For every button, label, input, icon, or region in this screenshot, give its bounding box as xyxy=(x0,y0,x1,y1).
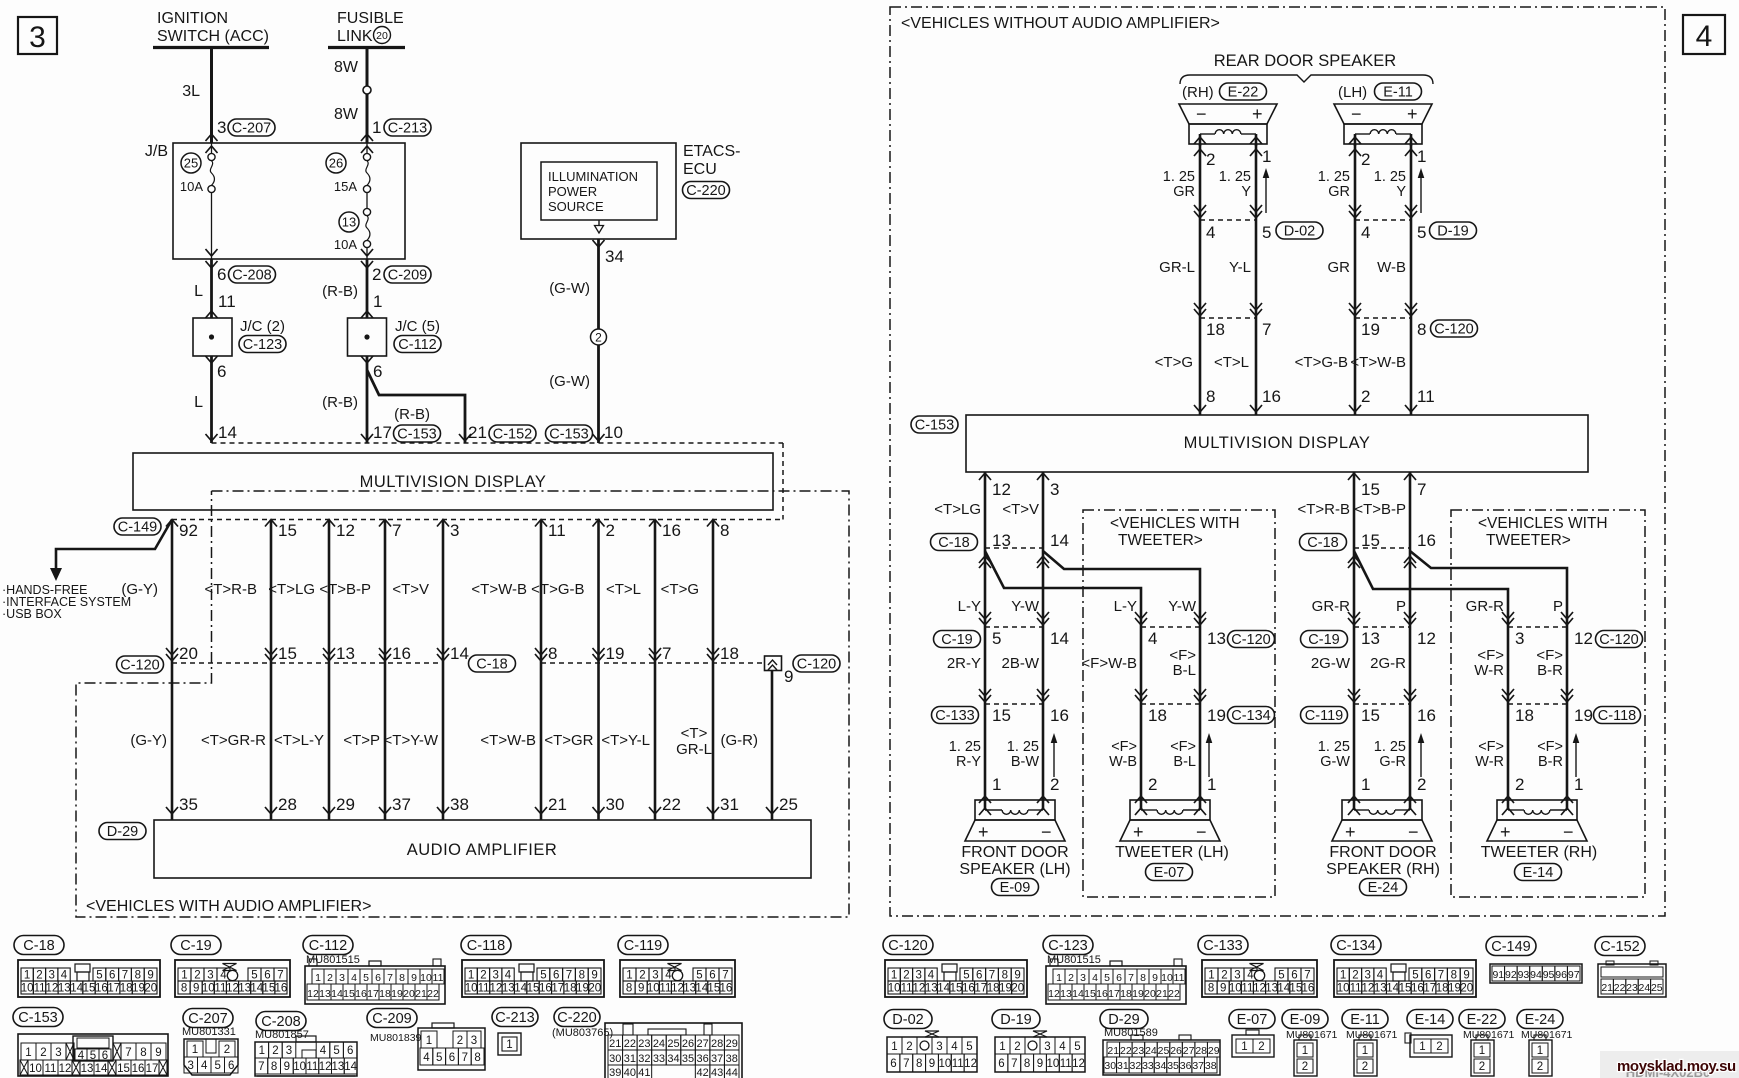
svg-text:+: + xyxy=(1500,822,1511,842)
connector pinout C-213 xyxy=(492,1008,538,1027)
svg-text:23: 23 xyxy=(1133,1045,1145,1057)
wire multivision pin 8 to amplifier pin 31 xyxy=(712,520,715,821)
svg-text:L: L xyxy=(194,394,203,411)
svg-text:17: 17 xyxy=(146,1063,159,1075)
rear door speaker RH symbol xyxy=(1179,104,1277,124)
svg-text:3: 3 xyxy=(1050,480,1059,499)
connector pinout C-18 xyxy=(14,936,64,955)
svg-text:E-24: E-24 xyxy=(1368,880,1399,896)
svg-text:2: 2 xyxy=(1479,1061,1485,1073)
svg-text:Y-W: Y-W xyxy=(1168,598,1197,615)
fuse 13 10A xyxy=(339,212,359,232)
wires from multivision to front speaker xyxy=(984,472,987,800)
svg-text:4: 4 xyxy=(1206,223,1215,242)
svg-text:L-Y: L-Y xyxy=(1114,598,1137,615)
wire 1.25GR rear LH pin2 xyxy=(1354,144,1357,415)
svg-text:29: 29 xyxy=(726,1038,738,1050)
svg-text:D-29: D-29 xyxy=(1108,1012,1139,1028)
connector tweeter second row xyxy=(1141,703,1200,705)
svg-text:(RH): (RH) xyxy=(1182,84,1214,101)
svg-text:27: 27 xyxy=(696,1038,708,1050)
svg-text:3: 3 xyxy=(1364,970,1370,982)
svg-text:15: 15 xyxy=(278,521,297,540)
svg-text:ECU: ECU xyxy=(683,161,717,178)
svg-text:8: 8 xyxy=(1417,320,1426,339)
svg-text:E-14: E-14 xyxy=(1523,865,1554,881)
svg-text:18: 18 xyxy=(1206,320,1225,339)
wire G-W illumination to multivision pin 10 xyxy=(597,239,600,443)
svg-text:8: 8 xyxy=(399,972,405,984)
connector pinout C-123 xyxy=(1043,936,1093,955)
svg-text:92: 92 xyxy=(1505,969,1517,981)
svg-text:13: 13 xyxy=(1374,983,1387,995)
svg-text:C-133: C-133 xyxy=(1203,938,1243,954)
svg-text:8: 8 xyxy=(916,1058,922,1070)
svg-text:(R-B): (R-B) xyxy=(322,394,358,411)
svg-text:30: 30 xyxy=(609,1053,621,1065)
svg-text:Y-L: Y-L xyxy=(1229,259,1251,276)
svg-text:(G-Y): (G-Y) xyxy=(130,732,167,749)
svg-text:3L: 3L xyxy=(182,83,200,100)
svg-text:15: 15 xyxy=(1361,706,1380,725)
svg-text:5: 5 xyxy=(1278,970,1284,982)
svg-text:B-R: B-R xyxy=(1537,662,1563,679)
svg-text:(G-W): (G-W) xyxy=(549,373,590,390)
svg-text:18: 18 xyxy=(987,983,1000,995)
svg-text:+: + xyxy=(978,822,989,842)
svg-text:20: 20 xyxy=(403,988,415,1000)
svg-text:5: 5 xyxy=(992,629,1001,648)
svg-text:8W: 8W xyxy=(334,106,359,123)
svg-text:MU801671: MU801671 xyxy=(1463,1029,1515,1041)
svg-text:C-220: C-220 xyxy=(557,1010,597,1026)
connector C-120 label left xyxy=(117,656,164,673)
svg-text:7: 7 xyxy=(125,1047,131,1059)
svg-text:8: 8 xyxy=(720,521,729,540)
svg-text:7: 7 xyxy=(462,1052,468,1064)
svg-text:28: 28 xyxy=(278,795,297,814)
svg-text:15: 15 xyxy=(83,983,96,995)
connector pinout C-133 xyxy=(1198,936,1248,955)
svg-text:Y: Y xyxy=(1241,184,1251,200)
svg-text:GR-R: GR-R xyxy=(1466,598,1504,615)
svg-text:C-18: C-18 xyxy=(476,657,507,673)
connector C-19 row xyxy=(1301,631,1348,648)
svg-text:POWER: POWER xyxy=(548,184,597,199)
svg-text:C-120: C-120 xyxy=(1434,322,1474,338)
svg-text:1: 1 xyxy=(426,1035,432,1047)
svg-text:<F>: <F> xyxy=(1170,739,1196,755)
svg-text:14: 14 xyxy=(1072,988,1084,1000)
svg-text:1: 1 xyxy=(259,1045,265,1057)
svg-text:5: 5 xyxy=(215,1060,221,1072)
svg-text:7: 7 xyxy=(1011,1058,1017,1070)
svg-text:8: 8 xyxy=(626,983,632,995)
vehicles with tweeter box LH xyxy=(1083,510,1275,897)
branch wire to tweeter left xyxy=(1354,551,1508,800)
connector pinout C-220 xyxy=(554,1008,600,1027)
svg-text:3: 3 xyxy=(492,970,498,982)
svg-text:4: 4 xyxy=(320,1045,327,1057)
svg-text:6: 6 xyxy=(890,1058,896,1070)
connector pinout E-24 xyxy=(1517,1010,1563,1029)
svg-text:22: 22 xyxy=(1614,982,1626,994)
svg-text:20: 20 xyxy=(588,983,601,995)
svg-text:8W: 8W xyxy=(334,59,359,76)
svg-text:15: 15 xyxy=(1399,983,1412,995)
svg-text:2: 2 xyxy=(639,970,645,982)
svg-text:TWEETER (LH): TWEETER (LH) xyxy=(1115,844,1229,861)
svg-text:21: 21 xyxy=(415,988,427,1000)
ignition switch feed bar xyxy=(153,46,269,49)
svg-text:15: 15 xyxy=(527,983,540,995)
svg-text:9: 9 xyxy=(284,1061,290,1073)
wire C-120 pin 9 to amplifier pin 25 G-R xyxy=(771,670,774,820)
svg-text:12: 12 xyxy=(1362,983,1375,995)
svg-text:11: 11 xyxy=(34,983,46,995)
svg-text:21: 21 xyxy=(1601,982,1613,994)
svg-text:16: 16 xyxy=(275,983,288,995)
svg-text:MU801331: MU801331 xyxy=(182,1026,236,1038)
svg-text:GR: GR xyxy=(1173,184,1195,200)
svg-text:29: 29 xyxy=(336,795,355,814)
svg-text:17: 17 xyxy=(367,988,379,1000)
svg-text:10: 10 xyxy=(21,983,34,995)
svg-text:TWEETER (RH): TWEETER (RH) xyxy=(1481,844,1597,861)
svg-text:<T>P: <T>P xyxy=(343,732,380,749)
multivision display box right C-153 xyxy=(911,416,958,433)
svg-text:<T>G: <T>G xyxy=(1155,354,1193,371)
connector pinout C-134 xyxy=(1331,936,1381,955)
multivision display connector dashed line C-153 xyxy=(212,442,784,444)
svg-text:C-120: C-120 xyxy=(1599,632,1639,648)
svg-text:10A: 10A xyxy=(334,237,357,252)
svg-text:13: 13 xyxy=(319,988,331,1000)
svg-text:C-134: C-134 xyxy=(1336,938,1376,954)
svg-text:(G-R): (G-R) xyxy=(721,732,759,749)
joint connector J/C(2) C-123 xyxy=(206,311,218,318)
svg-text:<F>: <F> xyxy=(1478,739,1504,755)
svg-text:MU801671: MU801671 xyxy=(1346,1029,1398,1041)
svg-text:24: 24 xyxy=(1639,982,1651,994)
hands-free interface arrow wire xyxy=(56,520,172,569)
up arrows xyxy=(1420,737,1422,777)
svg-text:GR-L: GR-L xyxy=(1159,259,1195,276)
svg-text:26: 26 xyxy=(329,156,343,171)
tweeter RH symbol xyxy=(1497,800,1577,820)
svg-text:10: 10 xyxy=(647,983,660,995)
audio amplifier box D-29 xyxy=(154,820,811,878)
svg-text:33: 33 xyxy=(1142,1060,1154,1072)
svg-text:10: 10 xyxy=(938,1058,951,1070)
wire 1.25Y rear LH pin1 xyxy=(1410,144,1413,415)
svg-text:C-19: C-19 xyxy=(1308,632,1339,648)
svg-text:17: 17 xyxy=(1108,988,1120,1000)
svg-text:15: 15 xyxy=(1084,988,1096,1000)
svg-text:D-29: D-29 xyxy=(107,824,138,840)
svg-text:C-112: C-112 xyxy=(309,938,347,954)
svg-text:37: 37 xyxy=(711,1053,723,1065)
svg-text:15: 15 xyxy=(707,983,720,995)
svg-text:−: − xyxy=(1041,822,1052,842)
svg-text:43: 43 xyxy=(711,1067,723,1078)
svg-text:12: 12 xyxy=(1253,983,1266,995)
wire 1.25Y rear RH pin1 xyxy=(1255,144,1258,415)
svg-text:7: 7 xyxy=(1417,480,1426,499)
svg-text:11: 11 xyxy=(214,983,226,995)
wire L J/C(2) to multivision pin 14 xyxy=(210,356,213,443)
svg-text:8: 8 xyxy=(1002,970,1008,982)
svg-text:2: 2 xyxy=(457,1035,463,1047)
svg-text:MULTIVISION DISPLAY: MULTIVISION DISPLAY xyxy=(1184,434,1371,452)
svg-text:C-119: C-119 xyxy=(624,938,662,954)
svg-text:2: 2 xyxy=(595,331,602,345)
connector C-133 row xyxy=(932,707,979,724)
svg-text:3: 3 xyxy=(1515,629,1524,648)
svg-text:13: 13 xyxy=(1361,629,1380,648)
connector pinout C-209 xyxy=(367,1009,417,1028)
connector C-133 row xyxy=(1301,707,1348,724)
svg-text:12: 12 xyxy=(992,480,1011,499)
svg-text:B-W: B-W xyxy=(1011,754,1040,770)
svg-text:16: 16 xyxy=(662,521,681,540)
branch wire to tweeter left xyxy=(985,551,1141,800)
svg-text:18: 18 xyxy=(379,988,391,1000)
svg-text:G-R: G-R xyxy=(1379,754,1406,770)
svg-text:MU801857: MU801857 xyxy=(255,1029,309,1041)
svg-text:C-208: C-208 xyxy=(261,1014,301,1030)
svg-text:E-09: E-09 xyxy=(1290,1012,1321,1028)
svg-text:7: 7 xyxy=(122,970,128,982)
svg-text:13: 13 xyxy=(992,531,1011,550)
svg-text:4: 4 xyxy=(1092,972,1098,984)
svg-text:8: 8 xyxy=(1206,387,1215,406)
svg-text:38: 38 xyxy=(1205,1060,1217,1072)
svg-text:10: 10 xyxy=(202,983,215,995)
svg-text:<T>V: <T>V xyxy=(1002,501,1039,518)
svg-text:32: 32 xyxy=(1130,1060,1142,1072)
svg-text:19: 19 xyxy=(1132,988,1144,1000)
svg-text:10: 10 xyxy=(465,983,478,995)
svg-text:<T>GR-R: <T>GR-R xyxy=(201,732,266,749)
svg-text:21: 21 xyxy=(468,423,487,442)
svg-text:18: 18 xyxy=(720,644,739,663)
svg-text:9: 9 xyxy=(155,1047,161,1059)
svg-text:11: 11 xyxy=(901,983,913,995)
svg-text:11: 11 xyxy=(952,1058,964,1070)
svg-text:8: 8 xyxy=(271,1061,277,1073)
svg-text:7: 7 xyxy=(903,1058,909,1070)
svg-text:34: 34 xyxy=(667,1053,679,1065)
svg-text:<T>G-B: <T>G-B xyxy=(531,581,584,598)
svg-text:3: 3 xyxy=(1234,970,1240,982)
svg-text:25: 25 xyxy=(1158,1045,1170,1057)
svg-text:(G-W): (G-W) xyxy=(549,280,590,297)
svg-text:16: 16 xyxy=(1417,706,1436,725)
svg-text:3: 3 xyxy=(339,972,345,984)
svg-text:2: 2 xyxy=(1361,387,1370,406)
svg-text:17: 17 xyxy=(373,423,392,442)
connector C-18 row xyxy=(1300,534,1347,551)
svg-text:36: 36 xyxy=(696,1053,708,1065)
svg-text:6: 6 xyxy=(1116,972,1122,984)
svg-text:14: 14 xyxy=(450,644,469,663)
svg-text:20: 20 xyxy=(1011,983,1024,995)
svg-text:C-213: C-213 xyxy=(388,121,428,137)
svg-text:11: 11 xyxy=(478,983,490,995)
svg-text:C-208: C-208 xyxy=(232,268,272,284)
svg-text:7: 7 xyxy=(392,521,401,540)
svg-text:17: 17 xyxy=(551,983,564,995)
svg-text:6: 6 xyxy=(998,1058,1004,1070)
svg-text:25: 25 xyxy=(667,1038,679,1050)
svg-text:10: 10 xyxy=(1046,1058,1059,1070)
svg-text:2G-R: 2G-R xyxy=(1370,655,1406,672)
svg-text:95: 95 xyxy=(1543,969,1555,981)
svg-text:C-149: C-149 xyxy=(1491,939,1531,955)
svg-text:E-09: E-09 xyxy=(1000,880,1031,896)
front door speaker LH symbol xyxy=(975,800,1055,820)
svg-text:12: 12 xyxy=(59,1063,72,1075)
svg-text:9: 9 xyxy=(1463,970,1469,982)
svg-text:15: 15 xyxy=(117,1063,130,1075)
svg-text:E-24: E-24 xyxy=(1525,1012,1556,1028)
svg-text:4: 4 xyxy=(505,970,512,982)
svg-text:14: 14 xyxy=(1050,531,1069,550)
svg-text:16: 16 xyxy=(355,988,367,1000)
svg-text:34: 34 xyxy=(605,247,624,266)
svg-text:MU801515: MU801515 xyxy=(1047,954,1101,966)
svg-text:31: 31 xyxy=(1117,1060,1129,1072)
svg-text:<T>LG: <T>LG xyxy=(934,501,981,518)
svg-text:1: 1 xyxy=(25,1047,31,1059)
svg-text:22: 22 xyxy=(427,988,439,1000)
svg-text:1. 25: 1. 25 xyxy=(1318,739,1350,755)
svg-text:20: 20 xyxy=(179,644,198,663)
svg-text:91: 91 xyxy=(1492,969,1504,981)
svg-text:4: 4 xyxy=(61,970,68,982)
svg-text:2: 2 xyxy=(1361,150,1370,169)
svg-text:(LH): (LH) xyxy=(1338,84,1367,101)
wire L to J/C(2) xyxy=(210,259,213,318)
svg-text:18: 18 xyxy=(1436,983,1449,995)
svg-text:<T>L: <T>L xyxy=(606,581,641,598)
svg-text:1: 1 xyxy=(24,970,30,982)
connector pinout D-19 xyxy=(992,1010,1040,1029)
svg-text:5: 5 xyxy=(1104,972,1110,984)
junction block J/B box xyxy=(173,143,405,259)
svg-text:MU801671: MU801671 xyxy=(1521,1029,1573,1041)
svg-text:<T>V: <T>V xyxy=(392,581,429,598)
svg-text:3: 3 xyxy=(217,118,226,137)
svg-text:Y-W: Y-W xyxy=(1011,598,1040,615)
svg-text:<T>G: <T>G xyxy=(661,581,699,598)
svg-text:<T>L-Y: <T>L-Y xyxy=(274,732,324,749)
wire multivision pin 16 to amplifier pin 22 xyxy=(654,520,657,821)
svg-text:7: 7 xyxy=(258,1061,264,1073)
svg-text:3: 3 xyxy=(915,970,921,982)
svg-text:4: 4 xyxy=(951,1041,958,1053)
svg-text:17: 17 xyxy=(1423,983,1436,995)
wire 3L ignition to C-207 xyxy=(210,48,213,144)
svg-text:FRONT DOOR: FRONT DOOR xyxy=(1329,844,1436,861)
svg-text:<T>W-B: <T>W-B xyxy=(471,581,527,598)
svg-text:3: 3 xyxy=(29,21,46,54)
svg-text:2G-W: 2G-W xyxy=(1311,655,1351,672)
svg-text:10: 10 xyxy=(293,1061,306,1073)
svg-text:3: 3 xyxy=(188,1060,194,1072)
svg-text:6: 6 xyxy=(264,970,270,982)
svg-text:96: 96 xyxy=(1555,969,1567,981)
svg-text:1: 1 xyxy=(373,292,382,311)
svg-text:J/B: J/B xyxy=(145,143,168,160)
svg-text:16: 16 xyxy=(132,1063,145,1075)
svg-text:GR-L: GR-L xyxy=(676,741,712,758)
svg-text:2: 2 xyxy=(1537,1061,1543,1073)
svg-text:24: 24 xyxy=(653,1038,665,1050)
svg-text:IGNITION: IGNITION xyxy=(157,10,228,27)
connector pinout C-112 xyxy=(303,936,353,955)
svg-text:−: − xyxy=(1408,822,1419,842)
svg-text:(R-B): (R-B) xyxy=(322,283,358,300)
svg-text:C-123: C-123 xyxy=(243,337,283,353)
svg-text:·USB BOX: ·USB BOX xyxy=(2,607,62,621)
svg-text:13: 13 xyxy=(238,983,251,995)
svg-text:4: 4 xyxy=(665,970,672,982)
svg-text:14: 14 xyxy=(218,423,237,442)
svg-text:11: 11 xyxy=(1241,983,1253,995)
svg-text:13: 13 xyxy=(683,983,696,995)
svg-text:7: 7 xyxy=(1438,970,1444,982)
svg-text:<VEHICLES WITH AUDIO AMPLIFIER: <VEHICLES WITH AUDIO AMPLIFIER> xyxy=(86,898,371,915)
svg-text:+: + xyxy=(1252,104,1263,124)
svg-text:34: 34 xyxy=(1155,1060,1167,1072)
svg-text:16: 16 xyxy=(720,983,733,995)
wire R-B to J/C(5) xyxy=(366,259,369,318)
svg-text:3: 3 xyxy=(48,970,54,982)
svg-text:6: 6 xyxy=(109,970,115,982)
svg-text:C-123: C-123 xyxy=(1048,938,1088,954)
svg-text:1. 25: 1. 25 xyxy=(949,739,981,755)
svg-text:<F>: <F> xyxy=(1111,739,1137,755)
svg-text:<T>Y-L: <T>Y-L xyxy=(601,732,650,749)
svg-text:MULTIVISION DISPLAY: MULTIVISION DISPLAY xyxy=(360,473,547,491)
svg-text:C-153: C-153 xyxy=(397,427,437,443)
svg-text:C-19: C-19 xyxy=(180,938,211,954)
svg-text:<T>R-B: <T>R-B xyxy=(1297,501,1350,518)
svg-text:1: 1 xyxy=(506,1039,512,1051)
svg-text:C-18: C-18 xyxy=(1307,535,1338,551)
connector pinout C-19 xyxy=(171,936,221,955)
svg-text:SPEAKER (RH): SPEAKER (RH) xyxy=(1326,861,1440,878)
svg-text:5: 5 xyxy=(333,1045,339,1057)
svg-text:23: 23 xyxy=(1626,982,1638,994)
svg-text:AUDIO AMPLIFIER: AUDIO AMPLIFIER xyxy=(407,841,558,859)
svg-text:13: 13 xyxy=(1060,988,1072,1000)
svg-text:15: 15 xyxy=(343,988,355,1000)
svg-text:8: 8 xyxy=(181,983,187,995)
svg-text:1: 1 xyxy=(468,970,474,982)
connector pinout D-02 xyxy=(884,1010,932,1029)
svg-text:LINK: LINK xyxy=(337,28,373,45)
svg-text:5: 5 xyxy=(363,972,369,984)
svg-text:L: L xyxy=(194,283,203,300)
svg-text:L-Y: L-Y xyxy=(958,598,981,615)
svg-text:C-153: C-153 xyxy=(915,418,955,434)
svg-text:1. 25: 1. 25 xyxy=(1318,169,1350,185)
svg-text:6: 6 xyxy=(217,362,226,381)
connector pinout E-14 xyxy=(1407,1010,1453,1029)
